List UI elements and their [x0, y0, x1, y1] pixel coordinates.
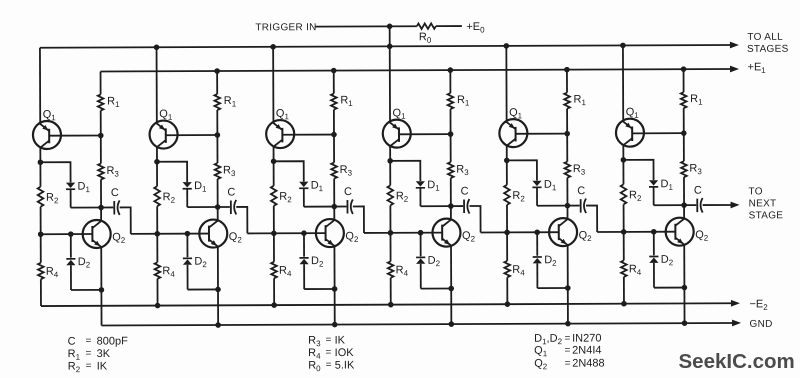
- wire: stage 6 Q1 base to R1/R3 junction: [632, 132, 684, 134]
- wire: stage 5 Q1 base to R1/R3 junction: [516, 133, 568, 135]
- node: stage 6 C junction (R3/D1/Q2 collector/C): [681, 202, 687, 208]
- wire: trigger in line: [315, 25, 416, 27]
- value list column 2: [308, 334, 355, 373]
- wire: stage 2 Q1 base to R1/R3 junction: [166, 134, 218, 136]
- svg-text:2N488: 2N488: [572, 357, 604, 369]
- capacitor C (stage 5) 800pF: [567, 199, 586, 214]
- node: stage 2 Q2 base / R2 junction: [154, 231, 160, 237]
- wire: stage 6 collector to D1: [623, 160, 653, 180]
- resistor R1 (stage 3) 3K: [331, 71, 337, 135]
- wire: stage 6 Q1 emitter to top rail: [622, 45, 624, 122]
- node: stage 1 Q1 collector junction: [38, 159, 44, 165]
- wire: stage 2 Q1 emitter to top rail: [156, 47, 158, 124]
- svg-text:2N4I4: 2N4I4: [572, 344, 601, 356]
- capacitor C (stage 6) 800pF: [684, 198, 703, 213]
- node: stage 5 emitter on GND rail: [565, 321, 571, 327]
- resistor R1 (stage 5) 3K: [564, 70, 570, 134]
- diode D1 (stage 1) 1N270: [66, 183, 75, 208]
- diode D1 (stage 6) 1N270: [649, 180, 658, 205]
- resistor R3 (stage 4) 1K: [448, 134, 454, 206]
- resistor R4 (stage 4) 10K: [388, 233, 394, 305]
- resistor R1 (stage 4) 3K: [448, 70, 454, 134]
- node: stage 3 C junction (R3/D1/Q2 collector/C): [331, 204, 337, 210]
- node: stage 2 R1 top on +E1 rail: [214, 68, 220, 74]
- node: stage 3 D2 top junction: [301, 230, 307, 236]
- diode D2 (stage 6) 1N270: [649, 232, 658, 288]
- resistor R1 (stage 1) 3K: [98, 71, 104, 135]
- resistor R2 (stage 2) 1K: [154, 162, 160, 234]
- node: stage 2 Q1 base junction: [215, 132, 221, 138]
- resistor R2 (stage 4) 1K: [387, 161, 393, 233]
- wire: stage 4 D2 link to Q2 emitter: [421, 287, 451, 289]
- label TO NEXT STAGE: [748, 186, 783, 221]
- wire: stage 1 Q2 collector up to C junction: [100, 208, 102, 222]
- wire: stage 5 Q2 emitter down to GND rail: [567, 245, 569, 324]
- wire: stage 6 D1 to C junction: [654, 204, 684, 206]
- svg-text:=: =: [86, 348, 92, 359]
- wire: stage 1 Q2 base line: [41, 233, 93, 235]
- GND rail: [102, 320, 742, 329]
- svg-text:STAGES: STAGES: [747, 44, 789, 55]
- svg-text:=: =: [326, 347, 332, 358]
- wire: stage 2 D1 to C junction: [187, 206, 217, 208]
- wire: stage 5 Q2 collector up to C junction: [566, 206, 568, 220]
- label TO ALL STAGES: [747, 32, 789, 55]
- node: stage 5 emitter/D2 junction: [565, 285, 571, 291]
- node: stage 1 emitter/D2 junction: [99, 287, 105, 293]
- resistor R0: [417, 23, 436, 28]
- wire: stage 3 D2 link to Q2 emitter: [304, 288, 334, 290]
- node: stage 5 C junction (R3/D1/Q2 collector/C): [565, 203, 571, 209]
- resistor R1 (stage 6) 3K: [681, 69, 687, 133]
- wire: stage 5 Q1 collector down: [506, 145, 508, 160]
- resistor R3 (stage 3) 1K: [331, 135, 337, 207]
- diode D1 (stage 3) 1N270: [299, 182, 308, 207]
- svg-text:5.IK: 5.IK: [335, 359, 355, 371]
- node: stage 5 Q1 base junction: [564, 131, 570, 137]
- wire: stage 6 Q2 collector up to C junction: [683, 205, 685, 219]
- node: stage 4 R1 top on +E1 rail: [448, 67, 454, 73]
- wire: stage 2 Q2 collector up to C junction: [217, 207, 219, 221]
- diode D1 (stage 2) 1N270: [183, 182, 192, 207]
- node: stage 5 top rail junction: [504, 43, 510, 49]
- resistor R4 (stage 1) 10K: [38, 234, 44, 306]
- resistor R4 (stage 6) 10K: [621, 232, 627, 304]
- wire: stage 6 Q2 base line: [597, 231, 675, 233]
- transistor Q1 (stage 3) 2N414 PNP: [266, 120, 294, 148]
- wire: stage 5 collector to D1: [507, 160, 537, 180]
- wire: stage 5 D2 link to Q2 emitter: [537, 287, 567, 289]
- svg-text:C: C: [461, 186, 469, 198]
- node: stage 2 C junction (R3/D1/Q2 collector/C): [215, 204, 221, 210]
- wire: stage 3 Q1 emitter to top rail: [272, 47, 274, 124]
- svg-text:=: =: [565, 345, 571, 356]
- +E1 rail: [101, 66, 740, 75]
- svg-text:C: C: [227, 186, 235, 198]
- resistor R3 (stage 6) 1K: [681, 133, 687, 205]
- capacitor C (stage 1) 800pF: [101, 200, 120, 215]
- svg-text:TRIGGER IN: TRIGGER IN: [255, 22, 316, 33]
- resistor R3 (stage 2) 1K: [215, 135, 221, 207]
- node: stage 1 Q1 base junction: [98, 133, 104, 139]
- top rail TO ALL STAGES (net: trigger bus): [40, 42, 739, 52]
- wire: stage 4 collector to D1: [390, 161, 420, 181]
- svg-text:800pF: 800pF: [97, 335, 129, 347]
- svg-text:=: =: [326, 360, 332, 371]
- node: stage 3 emitter on GND rail: [332, 322, 338, 328]
- node: stage 1 D2 top junction: [68, 231, 74, 237]
- resistor R4 (stage 5) 10K: [504, 232, 510, 304]
- capacitor C (stage 4) 800pF: [451, 199, 470, 214]
- node: stage 1 C junction (R3/D1/Q2 collector/C): [98, 205, 104, 211]
- resistor R2 (stage 1) 1K: [38, 162, 44, 234]
- wire: stage 3 Q2 emitter down to GND rail: [333, 246, 335, 325]
- node: stage 3 Q1 collector junction: [271, 158, 277, 164]
- wire: stage 3 Q1 collector down: [273, 146, 275, 161]
- wire: stage 6 Q2 emitter down to GND rail: [683, 245, 685, 324]
- svg-text:C: C: [344, 186, 352, 198]
- wire: stage 5 C output to stage 6 base: [586, 206, 597, 233]
- svg-text:=: =: [565, 358, 571, 369]
- resistor R2 (stage 6) 1K: [621, 160, 627, 232]
- wire: stage 4 Q1 emitter to top rail: [389, 46, 391, 123]
- svg-text:=: =: [565, 333, 571, 344]
- wire: stage 3 Q2 collector up to C junction: [333, 207, 335, 221]
- svg-text:STAGE: STAGE: [749, 210, 784, 221]
- wire: stage 1 Q1 base to R1/R3 junction: [49, 135, 101, 137]
- resistor R2 (stage 3) 1K: [271, 161, 277, 233]
- diode D2 (stage 2) 1N270: [183, 234, 192, 290]
- transistor Q1 (stage 2) 2N414 PNP: [150, 120, 178, 148]
- transistor Q2 (stage 1) 2N488 NPN: [83, 220, 111, 248]
- node: trigger tap junction: [387, 24, 393, 30]
- diode D2 (stage 1) 1N270: [66, 234, 75, 290]
- node: stage 3 emitter/D2 junction: [332, 286, 338, 292]
- node: stage 6 top rail junction: [620, 43, 626, 49]
- wire: stage 1 Q2 emitter down to GND rail: [100, 247, 102, 326]
- resistor R4 (stage 3) 10K: [271, 233, 277, 305]
- transistor Q1 (stage 6) 2N414 PNP: [616, 119, 644, 147]
- wire: stage 1 collector to D1: [40, 162, 70, 182]
- node: stage 6 Q1 collector junction: [621, 157, 627, 163]
- node: stage 1 Q2 base / R2 junction: [38, 231, 44, 237]
- svg-text:C: C: [68, 336, 76, 348]
- wire: stage 1 Q1 collector down: [39, 147, 41, 162]
- wire: stage 3 C output to stage 4 base: [353, 206, 364, 233]
- wire: stage 5 Q1 emitter to top rail: [505, 46, 507, 123]
- diode D2 (stage 5) 1N270: [533, 232, 542, 288]
- node: stage 5 Q2 base / R2 junction: [504, 230, 510, 236]
- wire: stage 4 Q2 base line: [364, 232, 442, 234]
- wire: stage 2 C output to stage 3 base: [236, 207, 247, 234]
- wire: stage 2 collector to D1: [157, 162, 187, 182]
- node: stage 4 R4 on -E2 rail: [388, 302, 394, 308]
- svg-text:C: C: [577, 185, 585, 197]
- resistor R3 (stage 5) 1K: [564, 134, 570, 206]
- node: stage 6 Q1 base junction: [681, 130, 687, 136]
- transistor Q1 (stage 4) 2N414 PNP: [383, 120, 411, 148]
- wire: stage 4 Q1 base to R1/R3 junction: [399, 133, 451, 135]
- capacitor C (stage 2) 800pF: [218, 200, 237, 215]
- svg-text:C: C: [111, 187, 119, 199]
- node: stage 2 R4 on -E2 rail: [155, 303, 161, 309]
- node: stage 4 top rail junction: [387, 44, 393, 50]
- wire: stage 6 C output TO NEXT STAGE: [703, 202, 740, 209]
- node: stage 2 Q1 collector junction: [154, 159, 160, 165]
- wire: stage 2 Q1 collector down: [156, 147, 158, 162]
- svg-text:IK: IK: [335, 335, 346, 347]
- wire: stage 1 C output to stage 2 base: [120, 207, 131, 234]
- svg-text:SeekIC.com: SeekIC.com: [679, 350, 795, 373]
- svg-text:NEXT: NEXT: [749, 198, 777, 209]
- svg-text:=: =: [86, 361, 92, 372]
- node: stage 3 R1 top on +E1 rail: [331, 68, 337, 74]
- node: stage 4 Q1 base junction: [448, 131, 454, 137]
- node: stage 6 emitter/D2 junction: [682, 285, 688, 291]
- wire: stage 2 Q2 emitter down to GND rail: [217, 246, 219, 325]
- wire: stage 3 D1 to C junction: [304, 206, 334, 208]
- value list column 1: [68, 335, 129, 374]
- resistor R4 (stage 2) 10K: [154, 234, 160, 306]
- wire: stage 4 C output to stage 5 base: [469, 206, 480, 233]
- node: stage 6 Q2 base / R2 junction: [621, 229, 627, 235]
- node: stage 2 emitter/D2 junction: [215, 287, 221, 293]
- node: stage 3 R4 on -E2 rail: [271, 302, 277, 308]
- node: stage 6 R1 top on +E1 rail: [681, 66, 687, 72]
- transistor Q2 (stage 4) 2N488 NPN: [432, 219, 460, 247]
- transistor Q2 (stage 5) 2N488 NPN: [549, 218, 577, 246]
- svg-text:3K: 3K: [97, 348, 111, 360]
- node: stage 6 emitter on GND rail: [682, 320, 688, 326]
- node: stage 4 emitter on GND rail: [449, 321, 455, 327]
- svg-text:IOK: IOK: [335, 347, 355, 359]
- wire: stage 3 Q1 base to R1/R3 junction: [282, 134, 334, 136]
- wire: stage 2 D2 link to Q2 emitter: [188, 288, 218, 290]
- capacitor C (stage 3) 800pF: [334, 199, 353, 214]
- wire: stage 6 D2 link to Q2 emitter: [654, 287, 684, 289]
- node: stage 4 Q2 base / R2 junction: [388, 230, 394, 236]
- node: stage 2 D2 top junction: [185, 231, 191, 237]
- node: stage 5 R1 top on +E1 rail: [564, 67, 570, 73]
- wire: stage 5 D1 to C junction: [537, 205, 567, 207]
- node: stage 3 Q2 base / R2 junction: [271, 230, 277, 236]
- -E2 rail: [41, 300, 740, 310]
- wire: stage 4 D1 to C junction: [420, 205, 450, 207]
- svg-text:IN270: IN270: [572, 332, 601, 344]
- node: stage 3 top rail junction: [270, 44, 276, 50]
- svg-text:GND: GND: [750, 319, 773, 330]
- transistor Q1 (stage 5) 2N414 PNP: [499, 119, 527, 147]
- wire: stage 6 Q1 collector down: [622, 145, 624, 160]
- transistor Q1 (stage 1) 2N414 PNP: [33, 121, 61, 149]
- wire: stage 1 Q1 emitter to top rail: [39, 48, 41, 125]
- svg-text:=: =: [86, 336, 92, 347]
- svg-text:TO ALL: TO ALL: [747, 32, 783, 43]
- wire: stage 3 Q2 base line: [247, 232, 325, 234]
- svg-text:TO: TO: [748, 186, 762, 197]
- wire: stage 4 Q2 emitter down to GND rail: [450, 245, 452, 324]
- svg-text:IK: IK: [97, 360, 108, 372]
- svg-text:=: =: [326, 335, 332, 346]
- node: stage 6 R4 on -E2 rail: [621, 301, 627, 307]
- resistor R3 (stage 1) 1K: [98, 135, 104, 207]
- transistor Q2 (stage 6) 2N488 NPN: [666, 218, 694, 246]
- diode D1 (stage 4) 1N270: [416, 181, 425, 206]
- wire: stage 4 Q1 collector down: [389, 146, 391, 161]
- wire: stage 3 collector to D1: [274, 161, 304, 181]
- transistor Q2 (stage 3) 2N488 NPN: [316, 219, 344, 247]
- svg-text:C: C: [694, 185, 702, 197]
- transistor Q2 (stage 2) 2N488 NPN: [199, 219, 227, 247]
- node: stage 4 D2 top junction: [418, 230, 424, 236]
- resistor R2 (stage 5) 1K: [504, 160, 510, 232]
- wire: trigger tap down to top rail: [389, 26, 391, 46]
- node: stage 4 C junction (R3/D1/Q2 collector/C): [448, 203, 454, 209]
- node: stage 4 Q1 collector junction: [387, 158, 393, 164]
- node: stage 3 Q1 base junction: [331, 132, 337, 138]
- node: stage 2 top rail junction: [154, 44, 160, 50]
- wire: R0 to +E0: [436, 25, 462, 27]
- node: stage 5 Q1 collector junction: [504, 158, 510, 164]
- node: stage 6 D2 top junction: [651, 229, 657, 235]
- wire: stage 1 D2 link to Q2 emitter: [71, 289, 101, 291]
- node: stage 5 R4 on -E2 rail: [505, 301, 511, 307]
- node: stage 4 emitter/D2 junction: [448, 286, 454, 292]
- node: stage 5 D2 top junction: [534, 229, 540, 235]
- node: stage 2 emitter on GND rail: [215, 322, 221, 328]
- wire: stage 5 Q2 base line: [481, 231, 559, 233]
- wire: stage 4 Q2 collector up to C junction: [450, 206, 452, 220]
- wire: stage 2 Q2 base line: [131, 233, 209, 235]
- diode D2 (stage 3) 1N270: [299, 233, 308, 289]
- resistor R1 (stage 2) 3K: [214, 71, 220, 135]
- diode D1 (stage 5) 1N270: [532, 181, 541, 206]
- value list column 3: [534, 332, 605, 371]
- wire: stage 1 D1 to C junction: [71, 207, 101, 209]
- diode D2 (stage 4) 1N270: [416, 233, 425, 289]
